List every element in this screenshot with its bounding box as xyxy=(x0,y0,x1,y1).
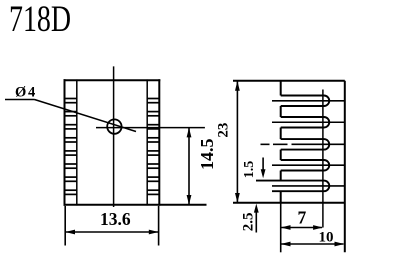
svg-text:14.5: 14.5 xyxy=(197,139,217,171)
arrow 2.5 pointing up xyxy=(255,208,257,233)
arrow 1.5 pointing down xyxy=(262,158,264,173)
front view outline top edge xyxy=(65,79,160,81)
side view top edge xyxy=(233,80,345,82)
leader underline for diameter label xyxy=(5,99,35,101)
svg-text:4: 4 xyxy=(28,85,35,101)
front view inner right fin line xyxy=(146,80,148,205)
svg-text:10: 10 xyxy=(319,229,334,245)
svg-text:2.5: 2.5 xyxy=(241,212,257,231)
extension line right for 13.6 xyxy=(158,206,160,246)
dimension line 10 xyxy=(282,243,344,245)
dimension line 23 xyxy=(236,82,238,203)
vertical line through fin tips (7 extension) xyxy=(322,90,324,228)
dimension line 13.6 xyxy=(66,231,158,233)
dimension line 7 xyxy=(282,227,323,229)
serration rungs left column xyxy=(65,99,160,195)
slot 5 top line extended left xyxy=(256,181,345,192)
extension line below left edge xyxy=(280,203,282,253)
slot 4 xyxy=(272,160,345,171)
svg-text:1.5: 1.5 xyxy=(242,161,257,179)
leader diagonal to hole xyxy=(35,100,137,132)
side view left edge web segments xyxy=(280,81,282,203)
side view right edge with extension down xyxy=(344,81,346,253)
front view outline left edge xyxy=(64,80,66,205)
dimension line 14.5 vertical xyxy=(188,128,190,204)
slot 1 xyxy=(272,96,345,107)
extension line left for 13.6 xyxy=(64,206,66,246)
slot 3 with dash-dot centerline xyxy=(261,139,345,150)
title 718D xyxy=(9,0,71,40)
front view bottom edge extended right xyxy=(65,204,206,206)
svg-text:23: 23 xyxy=(215,123,231,138)
svg-text:7: 7 xyxy=(298,207,307,227)
serration rungs right column xyxy=(147,99,159,195)
hole circle xyxy=(107,119,121,133)
slot 2 xyxy=(272,117,345,128)
front view inner left fin line xyxy=(76,80,78,205)
side view bottom edge xyxy=(233,202,345,204)
svg-text:Ø: Ø xyxy=(15,85,26,101)
svg-text:13.6: 13.6 xyxy=(100,209,131,229)
vertical centerline front view xyxy=(113,66,115,207)
front view outline right edge xyxy=(158,80,160,205)
horizontal line through hole xyxy=(96,127,205,129)
